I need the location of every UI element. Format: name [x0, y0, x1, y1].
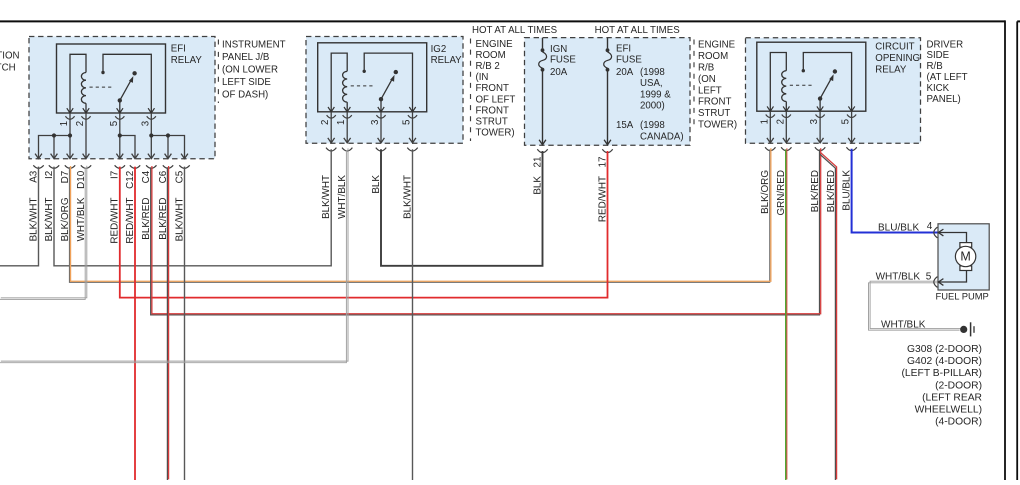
svg-text:ENGINE: ENGINE	[476, 39, 514, 50]
svg-text:FUSE: FUSE	[616, 54, 642, 65]
pump internal wiring	[938, 233, 966, 244]
svg-text:2: 2	[775, 119, 786, 124]
svg-text:C4: C4	[141, 170, 152, 183]
svg-text:TOWER): TOWER)	[476, 128, 515, 139]
svg-text:INSTRUMENT: INSTRUMENT	[222, 40, 286, 51]
svg-text:WHT/BLK: WHT/BLK	[76, 197, 87, 241]
svg-text:WHT/BLK: WHT/BLK	[881, 319, 926, 330]
wire D10 WHT/BLK	[0, 167, 85, 299]
svg-text:IGN: IGN	[550, 44, 567, 55]
relay block: DRIVER SIDE R/B (circuit opening relay)	[746, 38, 921, 144]
svg-text:BLK/WHT: BLK/WHT	[402, 175, 413, 219]
circuit opening relay block internal wires and arrows	[769, 111, 771, 143]
svg-text:(LEFT B-PILLAR): (LEFT B-PILLAR)	[902, 368, 983, 379]
svg-text:BLK/WHT: BLK/WHT	[44, 198, 55, 242]
wire A3 BLK/WHT	[0, 167, 39, 266]
wire I2-IG2p2 BLK/WHT	[54, 149, 331, 266]
svg-text:BLK/ORG: BLK/ORG	[760, 170, 771, 214]
svg-text:BLK/RED: BLK/RED	[158, 198, 169, 240]
wire pump WHT/BLK ground	[869, 283, 960, 330]
svg-text:3: 3	[809, 119, 820, 124]
wire D7-CORp1 BLK/ORG	[69, 149, 769, 282]
svg-text:FRONT: FRONT	[476, 83, 509, 94]
svg-text:STRUT: STRUT	[698, 108, 730, 119]
svg-text:RED/WHT: RED/WHT	[125, 198, 136, 244]
branch pin5 to C12	[120, 136, 135, 159]
svg-text:SWITCH: SWITCH	[0, 63, 16, 74]
wire CORp5 BLU/BLK	[852, 149, 939, 233]
svg-text:I2: I2	[44, 171, 55, 179]
relay IG2	[318, 43, 427, 112]
svg-text:RELAY: RELAY	[171, 55, 203, 66]
svg-text:C5: C5	[174, 170, 185, 183]
svg-text:BLK/WHT: BLK/WHT	[174, 198, 185, 242]
svg-text:2: 2	[320, 120, 331, 125]
svg-text:FRONT: FRONT	[476, 105, 509, 116]
svg-text:G308 (2-DOOR): G308 (2-DOOR)	[907, 344, 982, 355]
motor M	[960, 243, 972, 248]
svg-text:BLU/BLK: BLU/BLK	[878, 223, 919, 234]
relay IG2 RELAY symbol	[318, 43, 427, 112]
svg-text:20A: 20A	[550, 67, 568, 78]
svg-text:5: 5	[841, 119, 852, 124]
svg-text:2: 2	[75, 121, 86, 126]
svg-text:RED/WHT: RED/WHT	[110, 198, 121, 244]
svg-text:PANEL J/B: PANEL J/B	[222, 52, 269, 63]
svg-text:M: M	[960, 250, 970, 264]
svg-text:R/B: R/B	[698, 63, 714, 74]
svg-text:KICK: KICK	[927, 83, 950, 94]
IG2 relay block internal wires and arrows	[330, 112, 332, 143]
ground G308/G402	[960, 326, 967, 333]
connector arcs below driver side R/B	[765, 147, 775, 150]
svg-text:IGNITION: IGNITION	[0, 51, 20, 62]
svg-text:TOWER): TOWER)	[698, 120, 737, 131]
svg-text:(ON: (ON	[698, 74, 716, 85]
svg-text:CIRCUIT: CIRCUIT	[875, 42, 914, 53]
svg-text:(1998: (1998	[640, 120, 665, 131]
fuse EFI FUSE	[607, 38, 609, 49]
svg-text:(AT LEFT: (AT LEFT	[927, 72, 968, 83]
circuit opening relay pin connectors and pin numbers 1 2 3 5	[766, 115, 775, 118]
svg-text:STRUT: STRUT	[476, 117, 508, 128]
svg-text:D10: D10	[76, 170, 87, 189]
svg-text:C6: C6	[158, 170, 169, 183]
arrows at J/B bottom edge	[35, 154, 42, 159]
svg-text:BLK/ORG: BLK/ORG	[60, 198, 71, 242]
junction block: INSTRUMENT PANEL J/B (EFI relay)	[29, 37, 215, 159]
svg-text:I7: I7	[110, 171, 121, 179]
svg-text:1: 1	[759, 119, 770, 124]
branch pin1 to A3/I2	[39, 136, 71, 159]
relay EFI	[57, 44, 166, 113]
svg-text:GRN/RED: GRN/RED	[776, 170, 787, 216]
svg-text:IG2: IG2	[431, 44, 447, 55]
svg-text:RED/WHT: RED/WHT	[597, 176, 608, 222]
relay block: ENGINE ROOM R/B 2 (IG2 relay)	[306, 37, 463, 144]
svg-text:3: 3	[140, 121, 151, 126]
svg-text:BLK/RED: BLK/RED	[141, 198, 152, 240]
svg-text:ENGINE: ENGINE	[698, 40, 736, 51]
fuse block: ENGINE ROOM R/B	[525, 38, 691, 146]
wire C5 BLK/WHT	[184, 167, 186, 480]
component FUEL PUMP	[938, 224, 989, 290]
connector arcs below engine room R/B 2	[326, 148, 336, 151]
connector arcs below fuse block	[537, 149, 547, 152]
relay CIRCUIT OPENING	[757, 42, 866, 111]
svg-text:LEFT: LEFT	[698, 85, 722, 96]
svg-text:BLK/RED: BLK/RED	[810, 170, 821, 212]
pump connector pin 4	[934, 227, 938, 238]
svg-text:OF DASH): OF DASH)	[222, 89, 268, 100]
svg-text:BLK/RED: BLK/RED	[826, 170, 837, 212]
connector arcs below instrument panel J/B	[33, 165, 43, 168]
wire C12 RED/WHT	[134, 167, 136, 480]
branch pin3 to C6/C5	[151, 136, 184, 159]
svg-text:WHT/BLK: WHT/BLK	[876, 272, 921, 283]
power bus: hot at all times	[0, 20, 1005, 22]
svg-text:1999 &: 1999 &	[640, 89, 671, 100]
svg-text:BLK/WHT: BLK/WHT	[28, 198, 39, 242]
svg-text:CANADA): CANADA)	[640, 132, 684, 143]
label separators	[217, 40, 219, 104]
wire IG2p1 WHT/BLK	[0, 150, 346, 363]
svg-text:BLK/WHT: BLK/WHT	[321, 175, 332, 219]
svg-text:D7: D7	[60, 171, 71, 184]
wire CORp2 GRN/RED	[785, 149, 787, 480]
svg-text:BLK: BLK	[532, 176, 543, 195]
svg-text:WHT/BLK: WHT/BLK	[337, 175, 348, 219]
svg-text:DRIVER: DRIVER	[927, 39, 964, 50]
svg-text:(ON LOWER: (ON LOWER	[222, 65, 278, 76]
svg-text:USA,: USA,	[640, 78, 663, 89]
svg-text:1: 1	[336, 120, 347, 125]
svg-text:FUEL PUMP: FUEL PUMP	[936, 291, 989, 302]
svg-text:SIDE: SIDE	[927, 50, 950, 61]
wire C4-CORp3 BLK/RED	[151, 149, 820, 315]
svg-text:RELAY: RELAY	[875, 65, 907, 76]
svg-text:EFI: EFI	[616, 43, 631, 54]
svg-text:3: 3	[370, 120, 381, 125]
wire IG2p5 BLK/WHT	[412, 149, 414, 480]
svg-text:OPENING: OPENING	[875, 53, 920, 64]
svg-text:HOT AT ALL TIMES: HOT AT ALL TIMES	[595, 25, 681, 36]
svg-text:LEFT SIDE: LEFT SIDE	[222, 77, 271, 88]
svg-text:(LEFT REAR: (LEFT REAR	[922, 392, 982, 403]
svg-text:BLK: BLK	[371, 175, 382, 194]
svg-text:FRONT: FRONT	[698, 97, 731, 108]
wire C6 BLK/RED	[166, 167, 168, 480]
svg-text:(1998: (1998	[640, 67, 665, 78]
IG2 relay pin connectors and pin numbers 2 1 3 5	[327, 115, 336, 118]
relay CIRCUIT OPENING RELAY symbol	[757, 42, 866, 111]
svg-text:WHEELWELL): WHEELWELL)	[915, 405, 982, 416]
wire CORp3b BLK/RED	[820, 154, 836, 481]
svg-text:1: 1	[59, 121, 70, 126]
svg-text:FUSE: FUSE	[550, 55, 576, 66]
svg-text:R/B: R/B	[927, 61, 943, 72]
svg-text:EFI: EFI	[171, 44, 186, 55]
fuse IGN FUSE	[542, 38, 544, 49]
svg-text:R/B 2: R/B 2	[476, 61, 500, 72]
svg-text:5: 5	[926, 271, 932, 282]
J/B internal wiring below EFI relay	[69, 113, 71, 159]
svg-text:17: 17	[597, 157, 608, 168]
svg-text:ROOM: ROOM	[698, 51, 728, 62]
svg-text:C12: C12	[125, 171, 136, 189]
svg-text:5: 5	[109, 121, 120, 126]
wire IG2p3-IGNfuse BLK	[381, 149, 543, 266]
svg-text:OF LEFT: OF LEFT	[476, 94, 516, 105]
svg-text:(IN: (IN	[476, 72, 489, 83]
svg-text:RELAY: RELAY	[431, 55, 463, 66]
svg-text:(4-DOOR): (4-DOOR)	[935, 417, 982, 428]
svg-text:21: 21	[532, 156, 543, 167]
svg-text:2000): 2000)	[640, 101, 665, 112]
svg-text:G402 (4-DOOR): G402 (4-DOOR)	[907, 356, 982, 367]
svg-text:HOT AT ALL TIMES: HOT AT ALL TIMES	[472, 25, 558, 36]
svg-text:15A: 15A	[616, 120, 634, 131]
svg-text:ROOM: ROOM	[476, 50, 506, 61]
svg-text:A3: A3	[28, 170, 39, 183]
svg-text:BLU/BLK: BLU/BLK	[841, 170, 852, 211]
relay EFI RELAY symbol	[57, 44, 166, 113]
svg-text:(2-DOOR): (2-DOOR)	[935, 380, 982, 391]
svg-text:PANEL): PANEL)	[927, 94, 961, 105]
svg-text:4: 4	[927, 221, 933, 232]
EFI relay pin connectors and pin numbers 1 2 5 3	[65, 116, 74, 119]
svg-text:5: 5	[402, 120, 413, 125]
wire I7-EFIfuse RED/WHT	[120, 151, 608, 298]
svg-text:20A: 20A	[616, 67, 634, 78]
pump connector pin 5	[934, 277, 938, 288]
